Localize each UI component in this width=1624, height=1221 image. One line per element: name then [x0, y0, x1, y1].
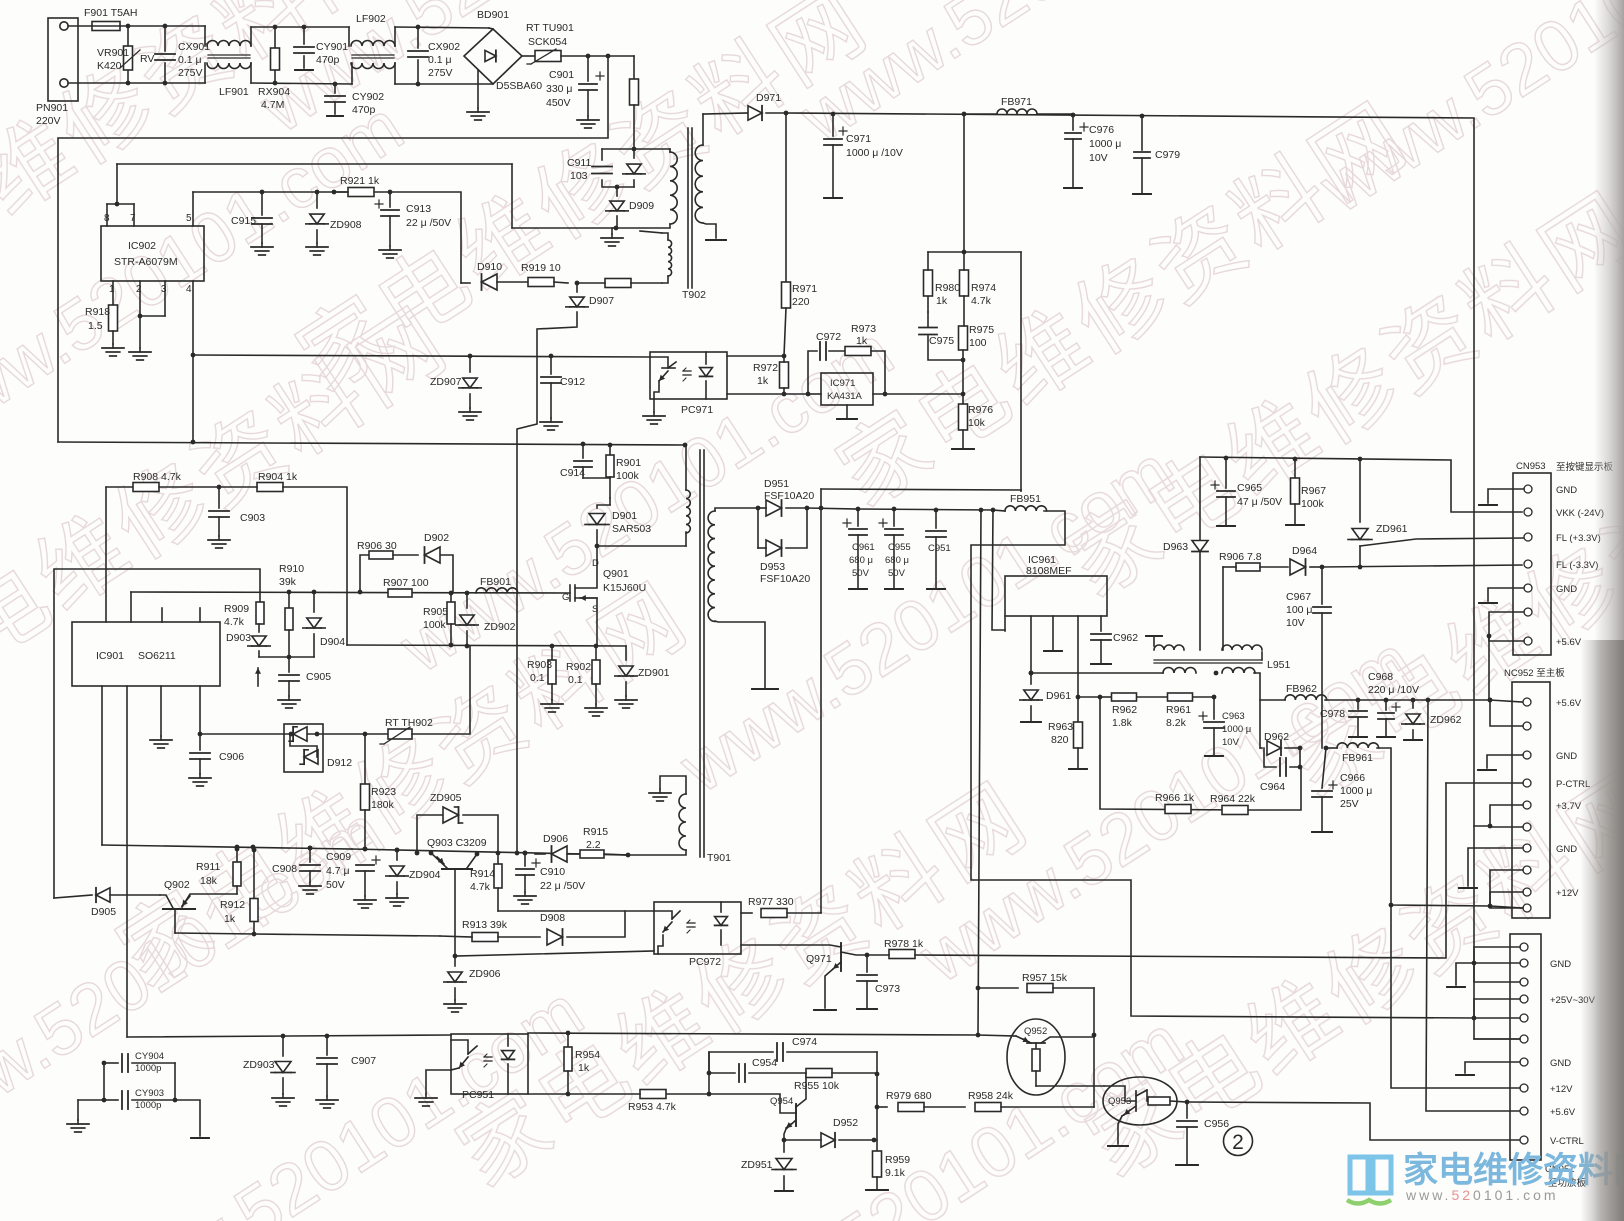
svg-text:2: 2 [136, 284, 142, 295]
wire +5.6 down [1426, 700, 1522, 1111]
transistor Q903 [442, 868, 472, 870]
wire 25v to R977 [820, 489, 822, 913]
svg-text:FB962: FB962 [1286, 683, 1317, 695]
svg-text:C913: C913 [406, 203, 431, 215]
zener ZD962 [1412, 700, 1414, 708]
wire primary return [58, 442, 685, 445]
svg-text:D964: D964 [1292, 545, 1317, 557]
svg-text:SCK054: SCK054 [528, 36, 567, 48]
svg-text:STR-A6079M: STR-A6079M [114, 256, 178, 268]
drain node [596, 546, 598, 560]
CN951 25v stubs [1474, 999, 1520, 1018]
svg-text:R913 39k: R913 39k [462, 919, 508, 931]
diode D964 [1260, 566, 1288, 568]
svg-text:FL (-3.3V): FL (-3.3V) [1556, 560, 1598, 571]
zener ZD901 [625, 646, 627, 660]
capacitor C951 [935, 510, 937, 528]
ground PC971 [653, 399, 655, 412]
NC952 gnd2 stub [1468, 848, 1523, 886]
capacitor CY904 [104, 1062, 118, 1064]
NC952 gnd stub [1487, 755, 1523, 768]
svg-text:275V: 275V [428, 67, 453, 79]
resistor R971 [785, 113, 787, 283]
svg-text:BD901: BD901 [477, 9, 509, 21]
svg-text:R966 1k: R966 1k [1155, 792, 1195, 804]
divider top wires [928, 251, 1021, 253]
wire IC901 pin1 bus [101, 686, 103, 845]
svg-text:T901: T901 [707, 852, 731, 864]
capacitor CY901 [302, 25, 307, 30]
svg-text:180k: 180k [371, 799, 395, 811]
diode D904 [313, 592, 315, 612]
svg-text:R958 24k: R958 24k [968, 1090, 1014, 1102]
svg-text:680 μ: 680 μ [885, 555, 909, 566]
ground bridge [477, 70, 479, 108]
svg-text:GND: GND [1556, 485, 1577, 496]
wire bottom rail 2 [251, 83, 352, 84]
svg-text:50V: 50V [852, 568, 870, 579]
svg-text:R923: R923 [371, 786, 396, 798]
wire Q902 base down [174, 909, 176, 933]
svg-text:18k: 18k [200, 875, 218, 887]
wire bottom rail 3 [395, 83, 493, 85]
resistor R905 [450, 593, 452, 601]
resistor R911 [235, 847, 240, 852]
svg-text:R963: R963 [1048, 721, 1073, 733]
svg-text:470p: 470p [352, 104, 376, 116]
svg-text:Q971: Q971 [806, 953, 832, 965]
svg-text:C961: C961 [852, 542, 875, 553]
choke LF901 [204, 26, 206, 46]
svg-text:0.1: 0.1 [530, 672, 545, 684]
connector PN901 [48, 18, 78, 101]
svg-text:ZD961: ZD961 [1376, 523, 1408, 535]
resistor R954 [566, 1031, 571, 1036]
svg-text:2: 2 [1232, 1131, 1244, 1154]
svg-text:1: 1 [109, 284, 115, 295]
svg-text:103: 103 [570, 170, 588, 182]
diode D910 [461, 282, 470, 284]
svg-text:ZD904: ZD904 [409, 869, 441, 881]
wire y956 left [455, 951, 654, 956]
NC952 pctrl stub [1446, 782, 1523, 784]
svg-text:C963: C963 [1222, 711, 1245, 722]
svg-text:C971: C971 [846, 133, 871, 145]
wire V-CTRL [1187, 1102, 1520, 1140]
wire L rail [68, 25, 92, 27]
capacitor C913 electrolytic [389, 192, 391, 207]
capacitor CY903 [104, 1099, 118, 1101]
svg-text:4.7M: 4.7M [261, 99, 284, 111]
svg-text:4.7 μ: 4.7 μ [326, 865, 350, 877]
svg-text:C907: C907 [351, 1055, 376, 1067]
svg-text:820: 820 [1051, 734, 1069, 746]
fuse F901 [92, 22, 120, 31]
svg-text:Q901: Q901 [603, 568, 629, 580]
T901 secondary [708, 511, 715, 621]
svg-text:R912: R912 [220, 899, 245, 911]
svg-text:R964 22k: R964 22k [1210, 793, 1256, 805]
svg-text:R975: R975 [969, 324, 994, 336]
svg-text:1000p: 1000p [135, 1100, 161, 1111]
resistor RX904 [273, 25, 278, 30]
wire PC972 LED top R977 [741, 912, 752, 914]
diode D971 [703, 113, 748, 114]
resistor R919 [497, 281, 528, 283]
resistor R957 [976, 986, 981, 991]
resistor R973 [829, 350, 845, 352]
svg-text:D907: D907 [589, 295, 614, 307]
svg-text:275V: 275V [178, 67, 203, 79]
svg-text:R910: R910 [279, 563, 304, 575]
svg-text:5: 5 [186, 213, 192, 224]
svg-text:CY904: CY904 [135, 1051, 164, 1062]
svg-text:D909: D909 [629, 200, 654, 212]
svg-text:NC952 至主板: NC952 至主板 [1504, 667, 1565, 679]
ground Q971 [825, 969, 833, 1008]
svg-text:D905: D905 [91, 906, 116, 918]
capacitor C961 electrolytic [857, 509, 859, 526]
wire x981 [978, 510, 981, 1035]
svg-text:0.1: 0.1 [568, 674, 583, 686]
zener ZD904 [395, 848, 400, 853]
svg-text:39k: 39k [279, 576, 297, 588]
IC901 pin4 wire [199, 686, 201, 734]
zener ZD902 [466, 593, 468, 608]
capacitor C915 [261, 192, 263, 215]
gate bus y592 [131, 592, 570, 593]
CY filter cluster [78, 1099, 104, 1101]
svg-text:50V: 50V [326, 879, 345, 891]
resistor R921 [348, 188, 374, 197]
svg-text:R979 680: R979 680 [886, 1090, 932, 1102]
svg-text:D904: D904 [320, 636, 345, 648]
svg-text:9.1k: 9.1k [885, 1167, 906, 1179]
IC902 bottom pins [112, 281, 114, 305]
svg-text:RT TH902: RT TH902 [385, 717, 433, 729]
svg-text:100k: 100k [423, 619, 447, 631]
svg-text:100: 100 [969, 337, 987, 349]
svg-text:C979: C979 [1155, 149, 1180, 161]
diode D963 wire [1199, 457, 1201, 650]
svg-text:www.520101.com: www.520101.com [1405, 1187, 1559, 1203]
resistor R961 [1137, 696, 1168, 698]
capacitor C976 electrolytic [1071, 113, 1076, 118]
svg-text:D962: D962 [1264, 731, 1289, 743]
T902 secondary winding [695, 145, 703, 223]
inductor FB961 [1326, 747, 1337, 749]
resistor R904 [257, 483, 283, 492]
svg-text:R902: R902 [566, 661, 591, 673]
svg-text:8: 8 [104, 213, 110, 224]
optocoupler PC951 [451, 1034, 528, 1094]
svg-text:450V: 450V [546, 97, 571, 109]
resistor R980 [927, 295, 929, 312]
wire 25v feedback horiz [821, 489, 1021, 491]
svg-text:C975: C975 [929, 335, 954, 347]
IC961 pin grounds [1030, 616, 1032, 673]
svg-text:1k: 1k [224, 913, 236, 925]
capacitor C910 electrolytic [523, 851, 528, 856]
zener D901 SAR503 [609, 498, 611, 505]
diode D953 [757, 508, 759, 548]
capacitor C909 electrolytic [363, 847, 368, 852]
wire vcc aux return [511, 164, 513, 228]
svg-text:R980: R980 [935, 282, 960, 294]
wire B+ node [561, 55, 634, 57]
CN953 gnd stub2 [1488, 588, 1524, 601]
bus y734 [200, 733, 388, 735]
svg-text:50V: 50V [888, 568, 906, 579]
svg-text:D953: D953 [760, 561, 785, 573]
wire FB962 bus [1260, 699, 1285, 701]
resistor aux unlabeled [605, 279, 631, 288]
svg-text:R961: R961 [1166, 704, 1191, 716]
capacitor C975 [928, 336, 963, 360]
svg-text:L951: L951 [1267, 659, 1291, 671]
svg-text:+5.6V: +5.6V [1556, 637, 1582, 648]
wire x877 [876, 1052, 878, 1140]
svg-text:1k: 1k [936, 295, 948, 307]
wire bottom rail [68, 82, 205, 84]
svg-text:FSF10A20: FSF10A20 [764, 490, 814, 502]
resistor R907 [388, 589, 412, 597]
svg-text:FB971: FB971 [1001, 96, 1032, 108]
capacitor C964 [1290, 748, 1300, 767]
diode D909 [616, 187, 618, 196]
NC952 stub 726 [1490, 702, 1523, 726]
svg-text:4: 4 [186, 284, 192, 295]
svg-text:100k: 100k [616, 470, 640, 482]
arrow mark [257, 668, 259, 686]
connector CN951 [1510, 934, 1541, 1160]
svg-text:R972: R972 [753, 362, 778, 374]
diode D952 [872, 1138, 877, 1143]
capacitor C966 electrolytic [1322, 748, 1326, 788]
IC901 pin stubs top [130, 592, 132, 622]
svg-text:C956: C956 [1204, 1118, 1229, 1130]
svg-text:C964: C964 [1260, 781, 1285, 793]
CN953 gnd stub1 [1488, 489, 1524, 503]
resistor R909 [259, 592, 261, 602]
bus y1033 right [528, 1033, 978, 1035]
svg-text:ZD907: ZD907 [430, 376, 462, 388]
varistor VR901 [126, 24, 131, 29]
IC902 top line [116, 164, 118, 204]
svg-text:R973: R973 [851, 323, 876, 335]
optocoupler PC972 [654, 902, 741, 954]
resistor R977 [761, 909, 787, 918]
capacitor C978 [1357, 700, 1359, 709]
svg-text:220 μ /10V: 220 μ /10V [1368, 684, 1419, 696]
svg-text:PC971: PC971 [681, 404, 713, 416]
svg-text:R915: R915 [583, 826, 608, 838]
svg-text:D908: D908 [540, 912, 565, 924]
svg-text:R974: R974 [971, 282, 996, 294]
svg-text:1k: 1k [757, 375, 769, 387]
svg-text:+5.6V: +5.6V [1556, 698, 1582, 709]
svg-text:3: 3 [161, 284, 167, 295]
bus y673 [1031, 672, 1163, 674]
resistor R964 [1222, 806, 1248, 815]
choke L951 [1146, 635, 1162, 637]
wire +25 junction [1474, 1018, 1522, 1039]
capacitor C908 [308, 846, 313, 851]
snubber loop wires [602, 148, 670, 150]
svg-text:R978 1k: R978 1k [884, 938, 924, 950]
svg-text:0.1 μ: 0.1 μ [178, 54, 202, 66]
CN951 gnd stub1 [1474, 947, 1520, 982]
svg-text:R976: R976 [968, 404, 993, 416]
logo book icon [1347, 1157, 1391, 1204]
resistor R963 [1076, 695, 1081, 700]
svg-text:D906: D906 [543, 833, 568, 845]
svg-text:D951: D951 [764, 478, 789, 490]
capacitor C911 [592, 166, 612, 168]
resistor R959 [876, 1140, 878, 1152]
svg-text:IC971: IC971 [830, 378, 855, 389]
wire 310V box line [58, 56, 608, 442]
svg-text:FB951: FB951 [1010, 493, 1041, 505]
svg-text:R906 30: R906 30 [357, 540, 397, 552]
wire opto bottom [727, 393, 808, 395]
wire 25v rail secondary [807, 508, 858, 509]
diode D907 [576, 283, 578, 292]
svg-text:PC972: PC972 [689, 956, 721, 968]
svg-text:100 μ: 100 μ [1286, 604, 1313, 616]
thermistor RT TH902 [363, 732, 368, 737]
svg-text:R953 4.7k: R953 4.7k [628, 1101, 677, 1113]
svg-text:ZD905: ZD905 [430, 792, 462, 804]
CN953 56 stub [1489, 636, 1524, 641]
zener ZD961 [1359, 459, 1361, 522]
ground pin2 [138, 314, 143, 319]
wire R966 branch [1100, 697, 1241, 810]
capacitor C954 [709, 1072, 735, 1074]
svg-text:+12V: +12V [1556, 888, 1579, 899]
svg-text:R907 100: R907 100 [383, 577, 429, 589]
resistor R906 [360, 555, 368, 592]
capacitor C955 electrolytic [893, 509, 895, 526]
svg-text:GND: GND [1556, 844, 1577, 855]
feedback rail y355 [193, 355, 650, 357]
svg-text:Q903 C3209: Q903 C3209 [427, 837, 487, 849]
svg-text:Q952: Q952 [1024, 1026, 1047, 1037]
CN951 gnd stub2 [1465, 1062, 1520, 1073]
snubber R901 [608, 443, 613, 448]
svg-text:R962: R962 [1112, 704, 1137, 716]
wire x1472 to 37 [1474, 825, 1490, 827]
svg-text:R911: R911 [196, 861, 220, 873]
svg-text:R955 10k: R955 10k [794, 1080, 840, 1092]
capacitor C905 [288, 657, 290, 672]
NC952 908 stub [1490, 907, 1523, 909]
capacitor C971 electrolytic [831, 112, 836, 117]
svg-text:C978: C978 [1320, 708, 1345, 720]
svg-text:680 μ: 680 μ [849, 555, 873, 566]
connector NC952 [1512, 682, 1550, 918]
svg-text:2.2: 2.2 [586, 839, 601, 851]
resistor R978 [889, 950, 915, 959]
svg-text:330 μ: 330 μ [546, 83, 573, 95]
svg-text:100k: 100k [1301, 498, 1325, 510]
IC961 box [1005, 576, 1107, 616]
resistor R958 [924, 1106, 965, 1108]
svg-text:R905: R905 [423, 606, 448, 618]
resistor R902 [595, 646, 597, 660]
svg-text:RV: RV [140, 53, 154, 65]
inductor FB971 [966, 113, 997, 115]
bar CY right [175, 1100, 200, 1136]
wire R964 up to C964 [1237, 767, 1301, 810]
wire y697 [1078, 696, 1100, 698]
wire +rail top [786, 113, 1474, 1018]
resistor R953 [666, 1093, 709, 1095]
resistor R906b [1236, 563, 1260, 571]
svg-text:ZD962: ZD962 [1430, 714, 1462, 726]
resistor R966 [1165, 805, 1191, 814]
wire x1489 up [1488, 636, 1490, 700]
svg-text:D910: D910 [477, 261, 502, 273]
diode D951 [756, 506, 761, 511]
svg-text:D903: D903 [226, 632, 251, 644]
wire L951 top right [1261, 652, 1263, 660]
svg-text:ZD908: ZD908 [330, 219, 362, 231]
wire d903 d904 join [259, 656, 314, 658]
resistor R912 [252, 848, 257, 853]
svg-text:C973: C973 [875, 983, 900, 995]
svg-text:V-CTRL: V-CTRL [1550, 1136, 1584, 1147]
IC902 box [101, 226, 204, 281]
capacitor C967 [1321, 567, 1323, 604]
capacitor C979 [1140, 114, 1145, 119]
secondary bus y509 [858, 509, 993, 510]
svg-text:C976: C976 [1089, 124, 1114, 136]
svg-text:10k: 10k [968, 417, 986, 429]
wire FB951 out [971, 511, 1474, 1018]
wire base bus R953 [709, 1094, 796, 1113]
resistor R972 [780, 362, 789, 388]
svg-text:C915: C915 [231, 215, 256, 227]
svg-text:R908 4.7k: R908 4.7k [133, 471, 182, 483]
ground Q953 [1118, 1116, 1122, 1144]
resistor R914 [496, 851, 501, 856]
T902 aux winding [512, 227, 616, 229]
bidirectional D912 [284, 724, 323, 772]
svg-text:1000p: 1000p [135, 1063, 161, 1074]
wire R908 to IC901 [105, 487, 107, 622]
svg-text:F901 T5AH: F901 T5AH [84, 7, 138, 19]
svg-text:CN953: CN953 [1516, 461, 1546, 472]
svg-text:D902: D902 [424, 532, 449, 544]
inductor FB901 [476, 588, 518, 593]
wire drain to primary [597, 545, 686, 547]
svg-text:+5.6V: +5.6V [1550, 1107, 1576, 1118]
svg-text:KA431A: KA431A [827, 391, 863, 402]
svg-text:CY901: CY901 [316, 41, 348, 53]
svg-text:R904 1k: R904 1k [258, 471, 298, 483]
optocoupler PC971 [650, 352, 727, 399]
capacitor C962 [1100, 616, 1102, 631]
svg-text:1000 μ /10V: 1000 μ /10V [846, 147, 903, 159]
svg-text:C901: C901 [549, 69, 574, 81]
svg-text:R957 15k: R957 15k [1022, 972, 1068, 984]
page mark 2 [1224, 1127, 1253, 1156]
wire Q903 base [454, 870, 456, 956]
wire PC951 out bottom [528, 1093, 568, 1095]
bus y1035 left [127, 1035, 451, 1037]
IC971 KA431A [821, 373, 873, 405]
